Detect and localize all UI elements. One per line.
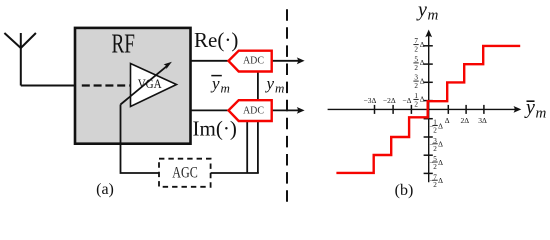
wire AGC feedback [211,172,259,174]
svg-text:Δ: Δ [438,140,443,149]
svg-text:3Δ: 3Δ [478,116,487,125]
wire ADC2 output with arrow [271,109,299,111]
y ticks [424,46,433,174]
svg-text:2: 2 [433,145,437,153]
svg-text:−3Δ: −3Δ [363,96,376,105]
ADC U2 [229,100,272,121]
x ticks [375,105,484,114]
svg-text:Im(·): Im(·) [193,117,237,141]
svg-text:ADC: ADC [243,55,264,67]
svg-text:Δ: Δ [438,176,443,185]
svg-text:2: 2 [414,46,418,54]
svg-text:ADC: ADC [243,104,264,116]
svg-text:3: 3 [414,74,418,82]
ADC U1 [229,51,272,72]
svg-text:m: m [428,8,439,24]
svg-text:2: 2 [433,127,437,135]
antenna ANT [4,33,36,86]
wire ADC1 down to AGC [257,61,259,173]
svg-text:2: 2 [433,181,437,189]
svg-text:y: y [265,74,275,93]
svg-text:2Δ: 2Δ [461,116,470,125]
x axis ybar_m [328,108,518,110]
svg-text:Δ: Δ [445,116,450,125]
x tick labels positive [445,116,487,125]
wire RF to ADC2 [190,109,231,111]
svg-text:m: m [221,81,230,96]
op-amp VGA [131,64,177,107]
node y_m label [265,74,285,96]
svg-text:2: 2 [433,163,437,171]
y tick labels positive [413,37,424,108]
dashed separator line [286,9,288,204]
svg-text:Δ: Δ [438,121,443,130]
svg-text:Δ: Δ [420,58,425,67]
svg-text:y: y [210,74,220,93]
axis label y_m [416,0,439,24]
wire ADC2 down to AGC [246,110,248,173]
AGC block [159,159,211,187]
dashed signal wire inside RF [82,84,130,86]
svg-text:y: y [416,0,427,21]
y axis y_m [428,34,430,183]
svg-text:Δ: Δ [420,76,425,85]
svg-text:Δ: Δ [420,40,425,49]
svg-text:5: 5 [414,56,418,64]
svg-text:2: 2 [414,64,418,72]
svg-text:Δ: Δ [420,95,425,104]
svg-text:y: y [524,97,535,119]
RF block [75,28,191,144]
svg-text:−Δ: −Δ [402,96,411,105]
wire ADC1 output with arrow [271,60,299,62]
svg-text:(b): (b) [395,182,414,199]
y tick labels negative [429,119,443,190]
svg-text:1: 1 [414,92,418,100]
axis label ybar_m [524,97,547,122]
quantizer staircase curve [336,46,520,173]
svg-text:2: 2 [414,82,418,90]
wire AGC to VGA control [121,105,160,174]
svg-text:m: m [275,81,284,96]
wire antenna to RF [21,85,76,87]
VGA gain arrow [121,65,168,104]
svg-text:(a): (a) [96,181,114,198]
svg-text:7: 7 [414,37,418,45]
svg-text:AGC: AGC [172,164,198,181]
svg-text:VGA: VGA [138,77,162,91]
svg-text:RF: RF [112,29,136,59]
x tick labels negative [363,96,411,105]
wire RF to ADC1 [190,60,231,62]
svg-text:Re(·): Re(·) [194,28,238,52]
node ybar_m label [210,74,230,96]
svg-text:−2Δ: −2Δ [383,96,396,105]
svg-text:m: m [536,106,547,122]
svg-text:Δ: Δ [438,158,443,167]
svg-text:2: 2 [414,100,418,108]
